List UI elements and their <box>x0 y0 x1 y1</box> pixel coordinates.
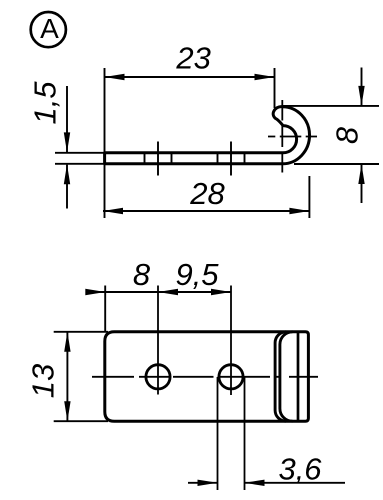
svg-text:23: 23 <box>175 40 210 75</box>
svg-text:9,5: 9,5 <box>175 257 219 292</box>
svg-text:1,5: 1,5 <box>28 81 63 125</box>
svg-text:8: 8 <box>330 126 365 144</box>
svg-text:28: 28 <box>189 176 225 211</box>
svg-text:3,6: 3,6 <box>278 451 322 486</box>
svg-text:A: A <box>40 13 59 44</box>
svg-text:8: 8 <box>133 257 151 292</box>
svg-text:13: 13 <box>26 364 61 398</box>
